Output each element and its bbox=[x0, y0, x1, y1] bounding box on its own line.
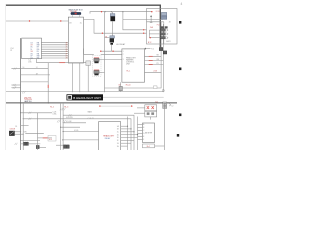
svg-text:2H: 2H bbox=[66, 58, 68, 60]
diode wires to verticals bbox=[15, 131, 21, 133]
J1 divider bbox=[147, 21, 164, 23]
wire y=139.9 to relay box bbox=[63, 139, 99, 141]
fuse row 2 bbox=[149, 33, 160, 35]
wire y=115.2 feeding vertical cluster bbox=[63, 115, 134, 150]
svg-text:HL-10: HL-10 bbox=[126, 84, 131, 86]
svg-text:MAIN FUSE BOX: MAIN FUSE BOX bbox=[69, 8, 84, 11]
fuse rows link bbox=[148, 30, 150, 38]
wire row 7 bbox=[41, 55, 68, 57]
fuse F1 (hangs from bus B) bbox=[112, 12, 114, 14]
arrow to other page bbox=[145, 48, 151, 50]
left box U2 connector column bbox=[22, 38, 42, 59]
svg-text:E: E bbox=[143, 136, 144, 138]
splice dot red near box entry bbox=[151, 11, 152, 12]
svg-text:2: 2 bbox=[15, 86, 16, 88]
wire row 1 bbox=[41, 42, 68, 44]
wire loop from bus B down x=122.9 to right box y=29.8 bbox=[123, 12, 147, 30]
right bus vertical V1 bbox=[105, 22, 162, 89]
wire y=59.4 from connector group into control box bbox=[99, 58, 122, 60]
wire y=140.4 bbox=[21, 139, 40, 141]
wire bus to relay coil bbox=[105, 37, 110, 39]
svg-text:0.85 RW: 0.85 RW bbox=[66, 117, 73, 119]
svg-text:RB: RB bbox=[157, 55, 159, 57]
bulb 2 bbox=[152, 106, 154, 109]
U5 pin wire 3 bbox=[138, 130, 143, 132]
svg-text:1: 1 bbox=[123, 51, 124, 53]
svg-text:D1: D1 bbox=[15, 126, 17, 128]
hash marks on 4wd pair lower bbox=[57, 120, 60, 122]
stub wire bottom bbox=[39, 147, 46, 149]
right bus vertical V2 bbox=[6, 24, 163, 92]
wire y=87.8 bbox=[11, 87, 20, 89]
4wd vertical pair bbox=[60, 104, 62, 150]
wire row 8 bbox=[41, 57, 68, 59]
wire from connector C31 to bus bbox=[99, 71, 104, 73]
wire from U1 pin down to connector group bbox=[84, 49, 94, 55]
wire into lamp box bbox=[137, 107, 145, 109]
wire y=85 bbox=[11, 84, 20, 86]
pin wire 1 bbox=[121, 125, 128, 127]
connector C30 bbox=[94, 57, 99, 59]
svg-text:0.85: 0.85 bbox=[28, 61, 31, 63]
wire y=133.7 bbox=[25, 133, 44, 135]
U4 pin labels bbox=[117, 125, 120, 148]
small connector marks bbox=[161, 26, 164, 28]
svg-text:1J: 1J bbox=[36, 67, 38, 69]
vertical cluster right of U4 bbox=[127, 117, 129, 151]
stub at start of bus B bbox=[89, 12, 91, 14]
U5 pin labels bbox=[143, 123, 145, 141]
oval connector at corner bbox=[162, 89, 164, 92]
junction dots on cluster bbox=[127, 126, 128, 127]
lamp box (high beam) bbox=[145, 105, 157, 111]
pin wire 4 bbox=[121, 134, 138, 136]
wire y=81.9 bbox=[21, 81, 48, 83]
U3 output wires right side bbox=[145, 56, 164, 72]
svg-text:RB: RB bbox=[37, 42, 39, 44]
rule below banner bbox=[6, 102, 177, 104]
left page border bbox=[5, 4, 7, 150]
svg-text:22: 22 bbox=[10, 50, 12, 52]
U5 pin wire 4 bbox=[138, 133, 143, 135]
svg-text:B 12: B 12 bbox=[148, 42, 152, 44]
pin wire 7 bbox=[121, 142, 131, 144]
wire into lower lamp box bbox=[134, 112, 145, 114]
out wire 2 bbox=[145, 59, 164, 61]
stub wires crossing pair bbox=[63, 122, 86, 124]
U5 pin wire 2 bbox=[138, 127, 143, 129]
hash on rule1 bbox=[22, 91, 25, 93]
connector label box on wire D bbox=[153, 86, 157, 89]
second left vertical bbox=[22, 104, 24, 150]
svg-text:2E: 2E bbox=[66, 51, 68, 53]
svg-text:1L: 1L bbox=[31, 49, 33, 51]
diode block D1 bbox=[9, 131, 14, 136]
red wire segments bbox=[149, 55, 153, 57]
svg-text:LAMP RH: LAMP RH bbox=[24, 100, 32, 103]
svg-text:B-4: B-4 bbox=[147, 146, 150, 148]
connector C21 at end of wire bbox=[86, 61, 91, 66]
pin wire 3 bbox=[121, 131, 134, 133]
red splice on wire C bbox=[102, 33, 103, 34]
pin labels U1 left edge (red) bbox=[66, 41, 69, 59]
U5 pin wire 6 bbox=[138, 139, 143, 141]
hash on wire y=143.9 bbox=[15, 143, 18, 145]
svg-text:C-05 12: C-05 12 bbox=[88, 118, 94, 120]
wire y=118.8 bbox=[23, 119, 131, 150]
pin labels U2 right edge (blue) bbox=[31, 42, 40, 59]
inline connector pair on dark bus bbox=[159, 48, 163, 51]
band bottom line bbox=[103, 96, 164, 98]
wire row 5 bbox=[41, 50, 68, 52]
hash and label on feeder bbox=[69, 114, 72, 116]
wire from bus A corner down x=94 bbox=[84, 19, 105, 33]
U5 pin wires left bbox=[138, 125, 143, 140]
bottom right box U5 bbox=[143, 123, 155, 143]
red wire segment on x=48.2 bbox=[47, 85, 49, 88]
wire end labels bbox=[157, 55, 160, 65]
connector C31 bbox=[94, 69, 99, 71]
branch to connector P1 y=19.4 bbox=[123, 18, 163, 20]
junction dots on B bbox=[104, 11, 105, 12]
fuse row 1 bbox=[149, 29, 160, 31]
svg-text:UNIT: UNIT bbox=[126, 63, 130, 65]
red segment wire y=137.9 bbox=[38, 137, 53, 139]
svg-text:B-2: B-2 bbox=[155, 101, 158, 103]
relay output stem bbox=[111, 45, 113, 52]
hash marks on pair bbox=[60, 108, 63, 110]
wire y=51.2 into control box bbox=[100, 50, 122, 52]
wire y=106 with splices bbox=[100, 105, 132, 107]
svg-text:DIODE: DIODE bbox=[10, 129, 16, 131]
svg-text:4B W/TH: 4B W/TH bbox=[145, 132, 153, 134]
bus wire B y=11.7 bbox=[90, 11, 153, 13]
svg-text:1E: 1E bbox=[117, 137, 119, 139]
pin wire 2 bbox=[121, 128, 131, 130]
dark connector pair bottom mid bbox=[64, 145, 67, 149]
svg-text:GW: GW bbox=[24, 132, 27, 134]
wire row 4 bbox=[41, 48, 68, 50]
page margin bullet 2 bbox=[179, 68, 181, 71]
section banner bbox=[67, 94, 104, 100]
page margin bullet 4 bbox=[177, 134, 179, 137]
wire row 6 bbox=[41, 53, 68, 55]
bulb 1 bbox=[147, 106, 149, 109]
svg-text:F 24: F 24 bbox=[156, 11, 160, 13]
lower lamp box bbox=[145, 111, 157, 117]
stem below lamp boxes bbox=[150, 117, 152, 120]
svg-text:2B: 2B bbox=[66, 45, 68, 47]
svg-text:1P: 1P bbox=[31, 56, 33, 58]
page margin bullet 3 bbox=[179, 114, 181, 117]
svg-text:HL-3: HL-3 bbox=[64, 107, 68, 109]
svg-text:0.85L: 0.85L bbox=[53, 113, 57, 115]
pin wire 5 bbox=[121, 137, 138, 139]
fuse box U1 (top center) bbox=[68, 17, 83, 63]
wire y=74.9 bbox=[21, 74, 50, 76]
svg-text:3: 3 bbox=[123, 59, 124, 61]
U5 pin wire 5 bbox=[138, 136, 143, 138]
splice red on A bbox=[29, 20, 30, 21]
svg-text:2: 2 bbox=[123, 54, 124, 56]
svg-text:RL: RL bbox=[37, 51, 39, 53]
left box tall left edge wire bbox=[20, 38, 22, 150]
svg-text:F 27: F 27 bbox=[157, 24, 160, 26]
wire y=143.9 with connector pair bbox=[21, 143, 41, 145]
fusible link FL1 bbox=[71, 12, 81, 14]
stub wire to right bus bbox=[155, 145, 165, 147]
control module box U3 bbox=[122, 49, 145, 82]
wire row 3 bbox=[41, 46, 68, 48]
red wire segment bbox=[59, 62, 65, 64]
svg-text:1F: 1F bbox=[117, 140, 119, 142]
vertical wire x=48.2 bbox=[47, 63, 49, 104]
svg-text:2F: 2F bbox=[66, 53, 68, 55]
bottom center box U4 (relay unit) bbox=[99, 122, 121, 152]
junction dots on left verticals bbox=[20, 112, 21, 113]
out wire 4 bbox=[145, 71, 162, 73]
svg-text:B HEADLIGHT UNIT: B HEADLIGHT UNIT bbox=[73, 96, 101, 100]
svg-text:HL-2: HL-2 bbox=[50, 107, 54, 109]
svg-text:F: F bbox=[143, 139, 144, 141]
wire y=112.8 with label bbox=[21, 112, 52, 114]
svg-text:W-4: W-4 bbox=[49, 139, 52, 141]
wire y=145.2 bottom mid bbox=[56, 144, 66, 146]
right bus bottom vertical bbox=[163, 104, 165, 150]
svg-text:HL-1: HL-1 bbox=[127, 71, 131, 73]
wire into box left y=131.6 bbox=[63, 131, 98, 133]
small component box bbox=[48, 136, 56, 142]
vertical x=37.5 bbox=[37, 113, 39, 150]
pin wire 6 bbox=[121, 139, 134, 141]
svg-text:P-2: P-2 bbox=[151, 49, 154, 51]
svg-text:1B: 1B bbox=[117, 129, 119, 131]
svg-text:C2: C2 bbox=[171, 105, 173, 107]
wire y=125.3 bbox=[21, 124, 29, 126]
fuse row 3 bbox=[149, 37, 160, 39]
main power bus (dark) bbox=[6, 5, 160, 47]
page margin bullet 1 bbox=[179, 21, 181, 24]
wire to right box, y=33.2 bbox=[105, 32, 147, 34]
svg-text:B: B bbox=[143, 127, 144, 129]
wire below U1 with red splice, y=62.7 bbox=[37, 59, 87, 63]
svg-text:RB: RB bbox=[37, 53, 39, 55]
U4 pin rows right bbox=[121, 126, 138, 146]
arrow symbol in J1 bbox=[150, 16, 152, 22]
splice dot red on B bbox=[101, 11, 102, 12]
wire row 2 bbox=[41, 44, 68, 46]
vertical bus x=104.5 bbox=[104, 12, 106, 93]
red splices at right box entry bbox=[143, 29, 144, 30]
U5 sub box with red label bbox=[143, 144, 155, 148]
harness wires U2 to U1 (7 rows) bbox=[41, 43, 68, 58]
bus wire A y=21 left segment bbox=[6, 20, 68, 22]
dashed connector group box bbox=[92, 55, 101, 76]
left feeder wire y=68.7 bbox=[11, 68, 48, 70]
verticals below fuse box U1 bbox=[71, 63, 73, 92]
banner icon bbox=[67, 95, 72, 100]
junction box J1 (top right) bbox=[147, 9, 178, 45]
wire y=54.3 into control box bbox=[101, 53, 122, 55]
connector P1 in J1 bbox=[161, 12, 166, 15]
out wire 1 bbox=[145, 55, 162, 57]
svg-text:RELAY: RELAY bbox=[105, 137, 111, 140]
connector on lower vertical bbox=[36, 145, 39, 148]
out wire 3 bbox=[145, 64, 164, 66]
svg-text:4: 4 bbox=[181, 2, 183, 6]
svg-text:H/L RELAY: H/L RELAY bbox=[116, 43, 126, 46]
svg-text:0.5 GW: 0.5 GW bbox=[66, 121, 72, 123]
svg-text:R1: R1 bbox=[105, 37, 107, 39]
connector block on right bus bbox=[163, 102, 167, 108]
relay K1 (headlight relay) bbox=[110, 36, 115, 38]
pin wire 8 bbox=[121, 145, 128, 147]
svg-text:2B: 2B bbox=[169, 21, 171, 23]
svg-text:14: 14 bbox=[23, 67, 25, 69]
hash mark bbox=[14, 68, 17, 70]
U5 pin wire 1 bbox=[138, 124, 143, 126]
